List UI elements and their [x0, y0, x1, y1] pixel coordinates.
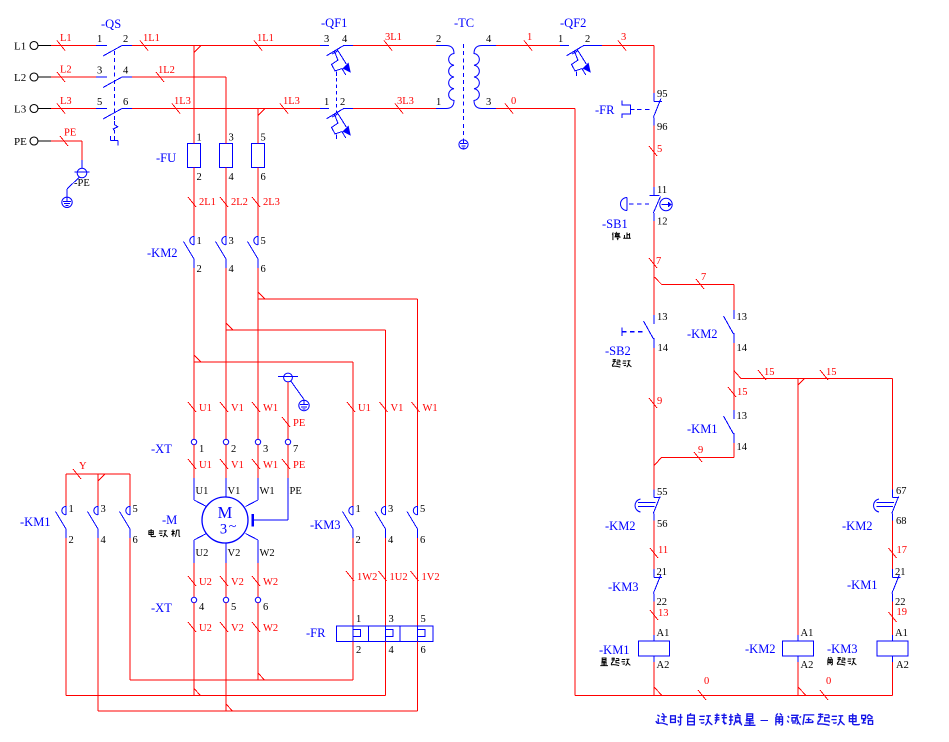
terminal XT:1	[191, 439, 196, 444]
wire 1L1 segment a	[132, 45, 194, 47]
wire W1 left column	[257, 268, 259, 440]
svg-text:2: 2	[197, 172, 202, 183]
svg-text:13: 13	[737, 411, 748, 422]
coil KM1	[653, 635, 655, 641]
wire V1 to motor	[225, 445, 227, 478]
svg-text:3: 3	[263, 444, 268, 455]
svg-text:21: 21	[657, 567, 668, 578]
wire KM3 branch down	[892, 379, 894, 490]
svg-text:U2: U2	[199, 577, 212, 588]
svg-text:2: 2	[340, 97, 345, 108]
wire 13	[653, 602, 655, 636]
svg-text:0: 0	[704, 676, 709, 687]
wire FR2 down	[352, 642, 354, 681]
wire FR4 down	[385, 642, 387, 696]
wire W2 motor to XT	[257, 563, 259, 598]
contactor KM1 interlock contact 21-22	[892, 569, 894, 578]
wire 11	[653, 521, 655, 570]
svg-text:6: 6	[261, 172, 266, 183]
wire V1 crossover	[226, 323, 233, 330]
svg-text:-XT: -XT	[151, 442, 172, 456]
transformer TC ground	[459, 140, 468, 149]
svg-text:W2: W2	[263, 623, 278, 634]
svg-text:2L1: 2L1	[199, 197, 216, 208]
svg-text:-QF1: -QF1	[321, 16, 347, 30]
svg-text:4: 4	[229, 264, 235, 275]
wire U2 below XT	[193, 603, 195, 696]
breaker QF1 pole 1-2	[320, 108, 329, 110]
svg-text:U2: U2	[199, 623, 212, 634]
wire 3 (QF2 to FR)	[602, 45, 654, 47]
svg-text:56: 56	[657, 519, 668, 530]
svg-text:-FR: -FR	[306, 626, 326, 640]
terminal XT:5	[223, 597, 228, 602]
wire 2L3	[257, 168, 259, 237]
svg-text:V1: V1	[231, 460, 244, 471]
svg-text:3: 3	[101, 504, 106, 515]
svg-text:-FU: -FU	[156, 151, 176, 165]
svg-text:1: 1	[197, 236, 202, 247]
svg-text:2: 2	[231, 444, 236, 455]
contactor KM2 delay contact 55-56	[653, 490, 655, 498]
wire 15 down to KM1 aux	[733, 379, 735, 410]
thermal relay FR heater elements	[337, 626, 434, 642]
wire L3	[51, 108, 96, 110]
svg-text:PE: PE	[293, 418, 305, 429]
svg-text:4: 4	[229, 172, 235, 183]
zero rail bottom	[575, 695, 893, 697]
svg-text:-KM1: -KM1	[20, 515, 51, 529]
svg-text:68: 68	[896, 516, 907, 527]
wire 15 horizontal	[741, 378, 893, 380]
thermal relay FR contact 95-96	[653, 93, 655, 102]
svg-text:U1: U1	[358, 403, 371, 414]
svg-text:5: 5	[421, 614, 426, 625]
svg-text:V2: V2	[231, 577, 244, 588]
svg-text:W1: W1	[260, 486, 275, 497]
wire KM2 aux to node 15	[733, 343, 735, 379]
svg-text:2: 2	[69, 535, 74, 546]
svg-text:7: 7	[293, 444, 298, 455]
wire 7 branch to KM2 aux	[662, 283, 735, 285]
junction star middle	[98, 474, 105, 481]
svg-text:-KM2: -KM2	[745, 642, 776, 656]
svg-text:3: 3	[220, 522, 227, 538]
svg-text:-KM2: -KM2	[687, 327, 718, 341]
junction node 15	[734, 371, 741, 379]
contactor KM3 interlock contact 21-22	[653, 569, 655, 578]
svg-text:1: 1	[356, 504, 361, 515]
svg-text:A2: A2	[896, 660, 909, 671]
pushbutton SB1 contact 11-12	[653, 187, 655, 196]
svg-text:17: 17	[897, 545, 908, 556]
motor M	[202, 497, 248, 543]
wire PE to XT7	[287, 382, 289, 440]
svg-text:4: 4	[388, 535, 394, 546]
motor M lead V2	[225, 543, 227, 563]
contactor KM2 main contact 5-6	[257, 236, 259, 245]
terminal XT:2	[223, 439, 228, 444]
pushbutton SB2 actuator	[621, 327, 623, 336]
wire L1	[51, 45, 96, 47]
svg-text:1L3: 1L3	[283, 96, 300, 107]
motor M lead W2	[246, 534, 259, 541]
svg-text:V2: V2	[228, 548, 241, 559]
wire 2L2	[225, 168, 227, 237]
svg-text:1: 1	[436, 97, 441, 108]
svg-text:13: 13	[657, 312, 668, 323]
svg-text:L1: L1	[60, 33, 72, 44]
wire W1 to motor	[257, 445, 259, 478]
wire KM2 coil to zero rail	[797, 662, 799, 696]
wire Y star bridge	[66, 473, 130, 475]
svg-text:12: 12	[657, 217, 668, 228]
wire KM1-6 down	[129, 538, 131, 680]
svg-text:3: 3	[324, 34, 329, 45]
svg-text:5: 5	[261, 236, 266, 247]
svg-text:2L3: 2L3	[263, 197, 280, 208]
svg-text:-XT: -XT	[151, 601, 172, 615]
wire 1W2	[352, 538, 354, 626]
svg-text:7: 7	[656, 256, 661, 267]
svg-text:W2: W2	[263, 577, 278, 588]
switch QS pole 5-6	[96, 108, 107, 110]
svg-text:U1: U1	[199, 460, 212, 471]
motor M lead W1	[257, 478, 259, 500]
motor M name	[149, 529, 156, 537]
svg-text:6: 6	[123, 97, 128, 108]
svg-text:9: 9	[657, 396, 662, 407]
svg-text:PE: PE	[290, 486, 302, 497]
svg-text:1: 1	[69, 504, 74, 515]
junction KM2 coil branch	[798, 379, 805, 386]
wire W1 crossover	[258, 292, 265, 299]
junction node 7	[655, 277, 662, 284]
svg-text:1L1: 1L1	[143, 33, 160, 44]
svg-text:4: 4	[486, 34, 492, 45]
wire PE	[51, 140, 82, 142]
wire W2 below XT	[257, 603, 259, 680]
svg-text:-KM1: -KM1	[599, 643, 630, 657]
wire column 2L3 upper	[257, 109, 259, 144]
svg-text:-SB2: -SB2	[605, 344, 631, 358]
svg-text:3: 3	[229, 133, 234, 144]
svg-text:11: 11	[658, 545, 668, 556]
pushbutton SB2 contact 13-14	[653, 315, 655, 324]
contactor KM1 main contact 5-6	[129, 474, 131, 506]
wire 5	[653, 126, 655, 188]
zero rail vertical	[574, 109, 576, 696]
svg-text:W2: W2	[260, 548, 275, 559]
wire 17	[892, 521, 894, 570]
svg-text:-KM2: -KM2	[842, 519, 873, 533]
switch QS linkage	[114, 51, 116, 121]
svg-text:-QS: -QS	[101, 17, 121, 31]
svg-text:-KM1: -KM1	[847, 578, 878, 592]
svg-text:15: 15	[764, 367, 775, 378]
svg-text:6: 6	[261, 264, 266, 275]
svg-text:13: 13	[658, 608, 669, 619]
terminal XT:3	[255, 439, 260, 444]
wire KM3 coil to zero rail	[892, 662, 894, 696]
svg-text:0: 0	[826, 676, 831, 687]
PE link circle	[81, 141, 83, 168]
svg-text:A1: A1	[895, 628, 908, 639]
svg-text:1W2: 1W2	[357, 572, 377, 583]
svg-text:3: 3	[388, 504, 393, 515]
svg-text:-KM2: -KM2	[605, 519, 636, 533]
svg-text:5: 5	[657, 144, 662, 155]
svg-text:L3: L3	[60, 96, 72, 107]
svg-text:1L2: 1L2	[158, 65, 175, 76]
wire 1L2	[132, 76, 226, 78]
svg-text:3: 3	[486, 97, 491, 108]
svg-text:V2: V2	[231, 623, 244, 634]
svg-text:7: 7	[701, 272, 706, 283]
svg-text:9: 9	[698, 445, 703, 456]
svg-text:2L2: 2L2	[231, 197, 248, 208]
svg-text:3: 3	[389, 614, 394, 625]
svg-text:V1: V1	[231, 403, 244, 414]
svg-text:4: 4	[342, 34, 348, 45]
wire 9 branch	[733, 443, 735, 457]
svg-text:PE: PE	[64, 128, 76, 139]
svg-text:3L1: 3L1	[385, 32, 402, 43]
ground PE	[62, 197, 72, 207]
svg-text:A2: A2	[801, 660, 814, 671]
wire V2 motor to XT	[225, 563, 227, 598]
svg-text:U1: U1	[196, 486, 209, 497]
svg-text:L1: L1	[14, 41, 26, 53]
svg-text:15: 15	[737, 387, 748, 398]
svg-text:1L1: 1L1	[257, 33, 274, 44]
svg-text:W1: W1	[263, 403, 278, 414]
svg-text:Y: Y	[79, 461, 87, 472]
svg-text:6: 6	[420, 535, 425, 546]
wire PE to motor	[287, 445, 289, 478]
fuse FU1	[188, 144, 201, 168]
svg-text:55: 55	[657, 487, 668, 498]
svg-text:2: 2	[585, 34, 590, 45]
svg-text:6: 6	[263, 602, 268, 613]
pushbutton SB1 release symbol	[660, 198, 672, 210]
wire 7	[653, 221, 655, 315]
svg-text:6: 6	[421, 645, 426, 656]
breaker QF1 pole 3-4	[320, 45, 329, 47]
wire V2 below XT	[225, 603, 227, 711]
svg-text:-TC: -TC	[454, 16, 474, 30]
svg-text:19: 19	[897, 607, 908, 618]
wire 1U2	[385, 538, 387, 626]
svg-text:5: 5	[420, 504, 425, 515]
contactor KM3 main contact 5-6	[417, 506, 419, 515]
junction 1L3 / FU3	[258, 109, 265, 116]
wire 1V2	[417, 538, 419, 626]
contactor KM3 main contact 1-2	[352, 506, 354, 515]
wire 3L1	[353, 45, 436, 47]
svg-text:U1: U1	[199, 403, 212, 414]
svg-text:3L3: 3L3	[397, 96, 414, 107]
svg-text:2: 2	[436, 34, 441, 45]
svg-text:~: ~	[229, 520, 237, 535]
svg-text:1: 1	[197, 133, 202, 144]
wire FR6 down	[417, 642, 419, 712]
wire link KM1-2 to FR4 (U2)	[66, 695, 386, 697]
contactor KM2 delay contact 67-68	[892, 490, 894, 498]
svg-text:1: 1	[199, 444, 204, 455]
svg-text:4: 4	[101, 535, 107, 546]
svg-text:1: 1	[97, 34, 102, 45]
contactor KM1 aux contact 13-14	[733, 410, 735, 419]
wire L2	[51, 76, 96, 78]
motor M lead PE	[287, 478, 289, 520]
svg-text:A1: A1	[801, 628, 814, 639]
wire column 2L1 upper	[193, 46, 195, 144]
svg-text:W1: W1	[423, 403, 438, 414]
svg-text:5: 5	[133, 504, 138, 515]
motor frame earth bar	[252, 514, 254, 527]
svg-text:4: 4	[389, 645, 395, 656]
svg-text:-M: -M	[162, 513, 177, 527]
svg-text:V1: V1	[391, 403, 404, 414]
motor M lead U2	[194, 534, 207, 541]
wire KM2 coil branch	[797, 379, 799, 635]
svg-text:2: 2	[356, 535, 361, 546]
transformer TC secondary winding	[482, 45, 496, 47]
junction 1L1 / FU1	[194, 46, 201, 53]
svg-text:1: 1	[527, 32, 532, 43]
svg-text:2: 2	[197, 264, 202, 275]
motor M lead V1	[225, 478, 227, 497]
earth conductor	[67, 177, 79, 189]
wire 1L3 segment b	[258, 108, 320, 110]
svg-text:2: 2	[123, 34, 128, 45]
svg-text:3: 3	[621, 32, 626, 43]
terminal XT:6	[255, 597, 260, 602]
svg-text:3: 3	[97, 66, 102, 77]
svg-text:2: 2	[356, 645, 361, 656]
svg-text:L3: L3	[14, 104, 27, 116]
svg-text:13: 13	[737, 312, 748, 323]
svg-text:96: 96	[657, 122, 668, 133]
contactor KM2 main contact 1-2	[193, 236, 195, 245]
contactor KM2 main contact 3-4	[225, 236, 227, 245]
svg-text:95: 95	[657, 89, 668, 100]
terminal XT:7	[285, 439, 290, 444]
svg-text:-SB1: -SB1	[602, 217, 628, 231]
wire V1 left column	[225, 268, 227, 440]
svg-text:A2: A2	[657, 660, 670, 671]
svg-text:67: 67	[896, 486, 907, 497]
svg-text:1V2: 1V2	[422, 572, 440, 583]
earth conductor at motor	[291, 381, 304, 400]
svg-text:3: 3	[229, 236, 234, 247]
fuse FU2	[220, 144, 233, 168]
wire 2L1	[193, 168, 195, 237]
wire U1 left column	[193, 268, 195, 440]
ground at motor PE	[299, 400, 309, 410]
svg-text:1: 1	[356, 614, 361, 625]
PE link circle at XT	[284, 373, 293, 382]
svg-text:5: 5	[97, 97, 102, 108]
switch QS pole 3-4	[96, 76, 107, 78]
svg-text:L2: L2	[14, 72, 26, 84]
svg-text:1L3: 1L3	[174, 96, 191, 107]
wire U1 to motor	[193, 445, 195, 478]
wire 1 (TC to QF2)	[496, 45, 560, 47]
svg-text:15: 15	[826, 367, 837, 378]
svg-text:14: 14	[737, 343, 748, 354]
svg-text:PE: PE	[14, 136, 27, 148]
wire U2 motor to XT	[193, 563, 195, 598]
svg-text:-KM2: -KM2	[147, 246, 178, 260]
svg-text:5: 5	[261, 133, 266, 144]
svg-text:14: 14	[737, 442, 748, 453]
svg-text:11: 11	[657, 185, 667, 196]
schematic title	[656, 713, 668, 725]
wire link KM1-4 to FR6 (V2)	[98, 710, 418, 712]
svg-text:0: 0	[511, 96, 516, 107]
contactor KM3 main contact 3-4	[385, 506, 387, 515]
wire 1L3 segment a	[132, 108, 258, 110]
switch QS pole 1-2	[96, 45, 107, 47]
wire 19	[892, 602, 894, 636]
svg-text:22: 22	[657, 597, 668, 608]
svg-text:L2: L2	[60, 65, 72, 76]
wire 9 rail	[653, 348, 655, 490]
svg-text:-FR: -FR	[595, 103, 615, 117]
svg-text:-QF2: -QF2	[560, 16, 586, 30]
wire 3L3	[353, 108, 436, 110]
svg-text:-KM3: -KM3	[608, 580, 639, 594]
svg-text:A1: A1	[657, 628, 670, 639]
svg-text:V1: V1	[228, 486, 241, 497]
svg-text:W1: W1	[263, 460, 278, 471]
svg-text:1: 1	[324, 97, 329, 108]
svg-text:U2: U2	[196, 548, 209, 559]
wire column 2L2 upper	[225, 77, 227, 144]
svg-text:-KM3: -KM3	[310, 518, 341, 532]
pushbutton SB1 mushroom head	[626, 198, 628, 211]
svg-text:-KM1: -KM1	[687, 422, 718, 436]
svg-text:1: 1	[558, 34, 563, 45]
svg-text:1U2: 1U2	[390, 572, 408, 583]
svg-text:6: 6	[133, 535, 138, 546]
fuse FU3	[252, 144, 265, 168]
wire U1 crossover	[194, 355, 201, 362]
breaker QF1 linkage	[335, 78, 337, 113]
wire KM1-4 down	[97, 538, 99, 711]
wire link KM1-6 to FR2 (W2)	[130, 679, 353, 681]
transformer TC core	[463, 44, 465, 121]
svg-text:14: 14	[658, 343, 669, 354]
transformer TC primary winding	[436, 45, 446, 47]
svg-text:-KM3: -KM3	[827, 642, 858, 656]
wire 0 (TC to zero rail)	[496, 108, 575, 110]
wire 1L1 segment b	[194, 45, 320, 47]
svg-text:PE: PE	[293, 460, 305, 471]
motor M lead U1	[193, 478, 195, 500]
contactor KM1 main contact 1-2	[65, 474, 67, 506]
wire KM1-2 down	[65, 538, 67, 696]
svg-text:4: 4	[123, 66, 129, 77]
svg-text:21: 21	[895, 567, 906, 578]
wire KM1 coil to zero rail	[653, 662, 655, 696]
svg-text:4: 4	[199, 602, 205, 613]
contactor KM1 main contact 3-4	[97, 474, 99, 506]
breaker QF2 pole 1-2	[560, 45, 569, 47]
svg-text:5: 5	[231, 602, 236, 613]
